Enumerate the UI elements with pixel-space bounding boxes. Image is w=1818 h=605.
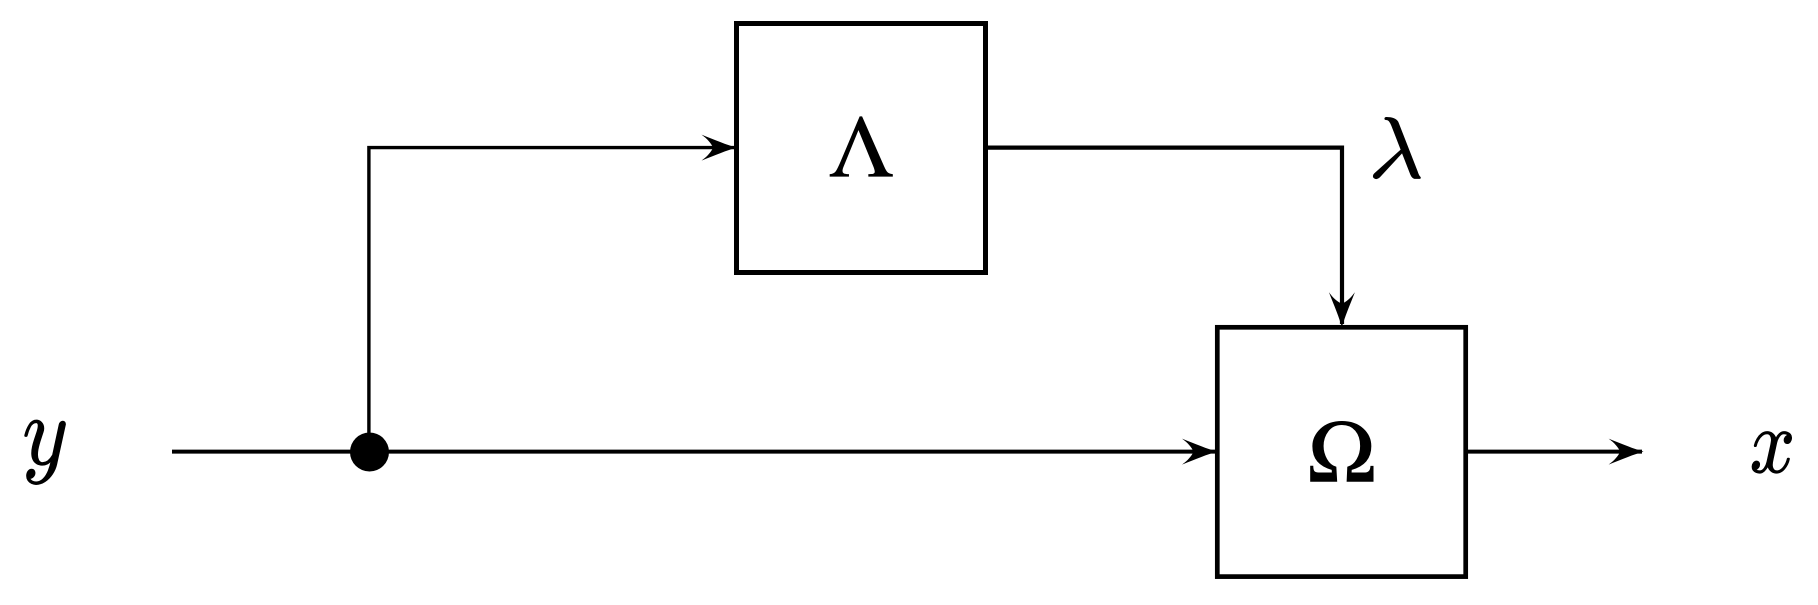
wire: input y to node bbox=[172, 450, 369, 454]
label lambda bbox=[1373, 117, 1420, 178]
arrowhead into Omega top bbox=[1329, 292, 1355, 327]
label Omega bbox=[1311, 421, 1374, 481]
box Lambda bbox=[737, 24, 986, 273]
label y bbox=[25, 420, 66, 484]
label Lambda bbox=[830, 117, 892, 176]
wire: node to Omega box bbox=[369, 450, 1215, 454]
wire: node up and right to Lambda box bbox=[369, 148, 734, 452]
arrowhead into Omega left bbox=[1182, 439, 1217, 465]
arrowhead output x bbox=[1609, 439, 1644, 465]
arrowhead into Lambda box bbox=[702, 135, 737, 161]
wire: Lambda output right then down to Omega top bbox=[988, 148, 1342, 324]
label x bbox=[1752, 431, 1792, 473]
box Omega bbox=[1217, 327, 1465, 576]
wire: Omega output to x bbox=[1468, 450, 1642, 454]
node junction dot bbox=[350, 433, 389, 472]
